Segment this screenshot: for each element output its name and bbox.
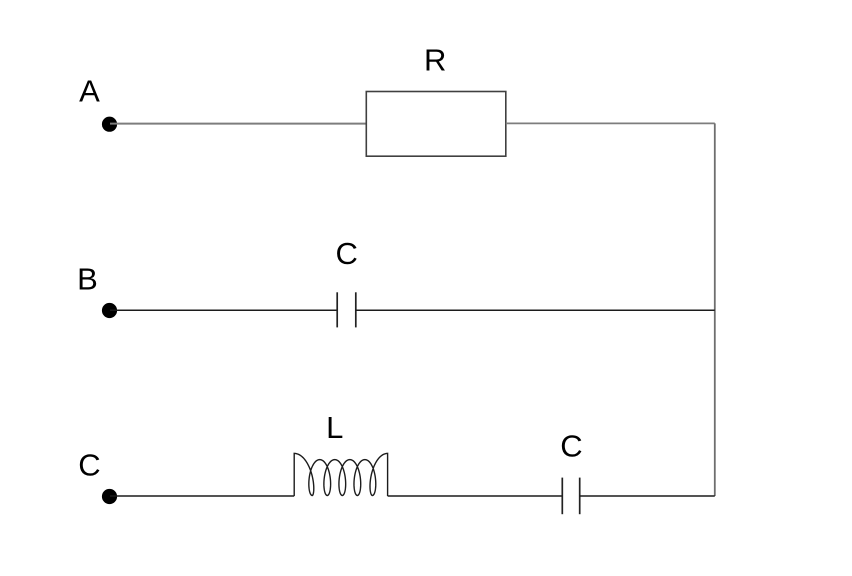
terminal dot A xyxy=(102,117,117,132)
capacitor C (row B) right plate xyxy=(355,292,357,327)
wire vertical bus xyxy=(714,123,716,496)
terminal dot B xyxy=(102,303,117,318)
capacitor C (row C) right plate xyxy=(579,478,581,515)
svg-text:A: A xyxy=(79,74,100,109)
wire B right (capacitor to bus) xyxy=(356,309,715,311)
wire B left (dot to capacitor) xyxy=(110,309,337,311)
svg-text:B: B xyxy=(77,262,98,297)
capacitor C (row B) left plate xyxy=(336,292,338,327)
capacitor C (row C) left plate xyxy=(561,478,563,515)
wire A right (resistor to bus) xyxy=(506,122,715,124)
svg-text:C: C xyxy=(336,236,358,271)
svg-text:C: C xyxy=(560,429,582,464)
wire C middle (inductor to capacitor) xyxy=(388,495,563,497)
wire A left (dot to resistor) xyxy=(110,123,366,125)
terminal dot C xyxy=(102,489,117,504)
inductor L xyxy=(294,453,387,496)
svg-text:R: R xyxy=(424,43,446,78)
wire C left (dot to inductor) xyxy=(110,495,294,497)
svg-text:C: C xyxy=(78,448,100,483)
resistor R1 xyxy=(366,92,506,157)
wire C right (capacitor to bus) xyxy=(580,495,715,497)
svg-text:L: L xyxy=(326,410,343,445)
